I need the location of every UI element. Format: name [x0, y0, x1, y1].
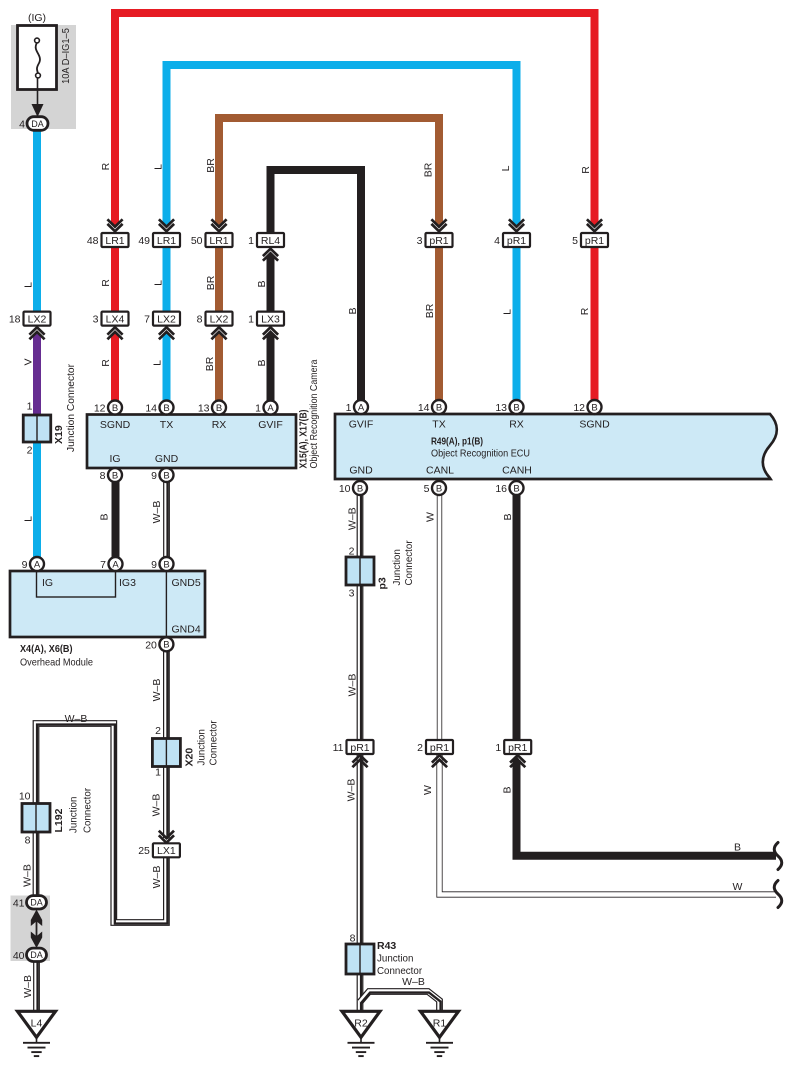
connector 1 pR1 — [495, 740, 531, 754]
svg-text:L: L — [23, 282, 35, 288]
DA splice background panel — [11, 896, 51, 962]
camera pin 8 B IG — [100, 468, 122, 482]
connector 25 LX1 — [138, 843, 180, 857]
svg-text:LX3: LX3 — [261, 314, 280, 326]
svg-text:R: R — [579, 307, 591, 315]
svg-text:LR1: LR1 — [105, 235, 124, 247]
svg-text:BR: BR — [204, 356, 216, 371]
svg-text:8: 8 — [100, 470, 106, 482]
connector pin 40 DA — [13, 948, 47, 962]
wire: blue L from fuse DA to LX2 — [33, 129, 41, 314]
svg-text:CANL: CANL — [426, 465, 454, 477]
svg-text:1: 1 — [248, 314, 254, 326]
ECU pin 1 A GVIF — [346, 400, 368, 414]
svg-text:10A D–IG1–5: 10A D–IG1–5 — [61, 28, 72, 84]
connector 2 pR1 — [417, 740, 453, 754]
svg-text:R: R — [100, 279, 112, 287]
svg-text:3: 3 — [349, 588, 355, 600]
svg-text:Overhead Module: Overhead Module — [20, 657, 93, 669]
svg-text:X19: X19 — [53, 425, 65, 444]
break symbol B wire — [774, 843, 782, 870]
svg-text:13: 13 — [495, 402, 507, 414]
wire: W-B pR1 to R43 — [357, 755, 364, 946]
svg-text:pR1: pR1 — [430, 742, 449, 754]
svg-text:B: B — [256, 359, 268, 366]
svg-text:B: B — [98, 513, 110, 520]
svg-text:W–B: W–B — [151, 501, 163, 524]
arrow into LR1 — [107, 219, 122, 231]
wire: red R segment LX4 to camera pin 12 — [111, 336, 119, 402]
wire: red R segment LR1 to LX4 — [111, 240, 119, 318]
svg-text:B: B — [734, 842, 741, 854]
svg-text:W–B: W–B — [22, 864, 34, 887]
svg-text:10: 10 — [339, 483, 351, 495]
svg-text:pR1: pR1 — [429, 235, 448, 247]
svg-text:GND5: GND5 — [172, 577, 201, 589]
svg-text:1: 1 — [495, 742, 501, 754]
svg-text:B: B — [502, 513, 514, 520]
svg-text:B: B — [163, 470, 169, 481]
svg-text:7: 7 — [100, 559, 106, 571]
svg-text:pR1: pR1 — [350, 742, 369, 754]
svg-text:DA: DA — [30, 898, 43, 908]
svg-text:B: B — [256, 280, 268, 287]
svg-text:BR: BR — [424, 303, 436, 318]
svg-text:3: 3 — [417, 235, 423, 247]
svg-text:1: 1 — [27, 401, 33, 413]
arrow into pR1 — [432, 755, 447, 767]
svg-text:L: L — [153, 280, 165, 286]
svg-text:SGND: SGND — [100, 419, 131, 431]
wire: blue L segment LR1 to LX2 — [163, 240, 171, 318]
svg-text:B: B — [163, 403, 169, 414]
svg-text:W: W — [425, 512, 437, 522]
connector pin 41 DA — [13, 896, 47, 910]
ground R1 — [421, 1011, 459, 1056]
svg-text:R: R — [580, 166, 592, 174]
ground R2 — [342, 1011, 380, 1056]
svg-text:SGND: SGND — [579, 419, 610, 431]
svg-text:11: 11 — [333, 742, 344, 754]
svg-text:p3: p3 — [377, 577, 389, 589]
svg-text:16: 16 — [495, 483, 507, 495]
svg-text:12: 12 — [94, 403, 106, 415]
wire: W-B R43 to ground R2 — [357, 973, 364, 1012]
svg-text:pR1: pR1 — [585, 235, 604, 247]
connector pin 4 DA — [19, 117, 48, 131]
svg-text:pR1: pR1 — [508, 742, 527, 754]
svg-text:Object Recognition Camera: Object Recognition Camera — [308, 359, 320, 468]
svg-text:B: B — [501, 786, 513, 793]
connector 8 LX2 — [197, 312, 233, 326]
ECU pin 16 B CANH — [495, 481, 523, 495]
wire: brown BR segment pR1 to ECU pin 14 — [435, 240, 443, 400]
svg-text:Object Recognition ECU: Object Recognition ECU — [431, 448, 530, 460]
svg-text:B: B — [513, 483, 519, 494]
svg-text:2: 2 — [349, 546, 355, 558]
svg-text:GVIF: GVIF — [349, 419, 374, 431]
arrow into LR1 — [211, 219, 226, 231]
junction connector X20 — [152, 739, 180, 767]
arrow into LX1 — [159, 831, 174, 843]
svg-text:GND: GND — [349, 465, 373, 477]
svg-text:W–B: W–B — [151, 866, 163, 889]
svg-text:8: 8 — [197, 314, 203, 326]
svg-text:R: R — [100, 359, 112, 367]
svg-text:W–B: W–B — [151, 794, 163, 817]
svg-text:9: 9 — [151, 470, 157, 482]
svg-text:(IG): (IG) — [28, 12, 46, 24]
svg-text:L: L — [502, 309, 514, 315]
connector 1 RL4 — [248, 233, 284, 247]
wire: brown BR segment LR1 to LX2 — [215, 240, 223, 318]
connector 7 LX2 — [144, 312, 180, 326]
svg-text:pR1: pR1 — [507, 235, 526, 247]
svg-text:B: B — [216, 403, 222, 414]
svg-text:LX4: LX4 — [106, 314, 125, 326]
svg-text:2: 2 — [27, 445, 33, 457]
svg-text:DA: DA — [30, 950, 43, 960]
wire: W ECU CANL pin 5 to pR1 — [437, 494, 442, 741]
junction connector L192 — [22, 804, 50, 833]
svg-text:IG: IG — [42, 577, 53, 589]
svg-text:A: A — [267, 403, 274, 414]
ECU pin 5 B CANL — [424, 481, 446, 495]
svg-text:W–B: W–B — [65, 713, 88, 725]
svg-text:R: R — [100, 162, 112, 170]
svg-text:B: B — [436, 402, 442, 413]
arrow into LX2 — [159, 327, 174, 339]
svg-text:5: 5 — [424, 483, 430, 495]
wire: black B segment camera pin 1 to LX3 — [267, 337, 275, 402]
camera pin 1 A GVIF — [255, 401, 277, 415]
svg-text:B: B — [112, 403, 118, 414]
ground L4 — [18, 1011, 56, 1056]
svg-text:48: 48 — [87, 235, 99, 247]
wire: B pR1 to right break — [517, 760, 777, 856]
fuse 10A D-IG1-5 — [18, 26, 57, 118]
svg-text:X20: X20 — [184, 748, 196, 767]
wire: black B segment LX3 to RL4 — [267, 258, 275, 314]
svg-text:Connector: Connector — [403, 540, 415, 586]
svg-text:Connector: Connector — [208, 720, 220, 766]
svg-text:DA: DA — [31, 119, 44, 129]
splice arrows between DA connectors — [31, 910, 42, 949]
connector 11 pR1 — [333, 740, 374, 754]
svg-text:CANH: CANH — [502, 465, 532, 477]
svg-text:RX: RX — [509, 419, 524, 431]
svg-text:12: 12 — [573, 402, 585, 414]
svg-text:GND: GND — [155, 453, 179, 465]
svg-text:18: 18 — [9, 314, 21, 326]
fuse background panel — [11, 25, 76, 129]
svg-text:LX2: LX2 — [210, 314, 229, 326]
svg-text:B: B — [357, 483, 363, 494]
svg-text:W–B: W–B — [345, 779, 357, 802]
svg-text:IG: IG — [109, 453, 120, 465]
wire: red R segment pR1 to ECU pin 12 — [591, 240, 599, 400]
junction connector X19 — [23, 415, 51, 442]
arrow into LX2 — [211, 327, 226, 339]
wire: purple V from LX2 to X19 — [33, 336, 41, 420]
svg-text:RL4: RL4 — [261, 235, 280, 247]
svg-text:41: 41 — [13, 898, 25, 910]
wire: brown BR segment LX2 to camera pin 13 — [215, 336, 223, 402]
arrow into RL4 — [263, 249, 278, 261]
svg-text:L: L — [153, 164, 165, 170]
svg-text:1: 1 — [255, 403, 261, 415]
svg-text:LR1: LR1 — [209, 235, 228, 247]
svg-text:TX: TX — [160, 419, 173, 431]
svg-text:W–B: W–B — [346, 507, 358, 530]
svg-text:BR: BR — [423, 162, 435, 177]
svg-text:1: 1 — [248, 235, 254, 247]
wire: W pR1 to right break — [440, 755, 777, 895]
svg-text:7: 7 — [144, 314, 150, 326]
svg-text:9: 9 — [22, 559, 28, 571]
svg-text:9: 9 — [151, 559, 157, 571]
svg-text:RX: RX — [212, 419, 227, 431]
svg-text:R49(A), p1(B): R49(A), p1(B) — [431, 436, 483, 448]
svg-text:IG3: IG3 — [119, 577, 136, 589]
arrow into pR1 — [352, 755, 367, 767]
svg-text:4: 4 — [494, 235, 500, 247]
wire: blue L segment LX2 to camera pin 14 — [163, 336, 171, 402]
wire: black B camera IG to module pin 7A — [112, 481, 120, 557]
module pin 20 B GND4 — [145, 637, 173, 651]
svg-text:LX1: LX1 — [157, 845, 176, 857]
svg-text:13: 13 — [198, 403, 210, 415]
wire: brown BR run — [219, 118, 439, 222]
svg-text:25: 25 — [138, 845, 150, 857]
ECU pin 13 B RX — [495, 400, 523, 414]
connector 50 LR1 — [191, 233, 233, 247]
svg-text:50: 50 — [191, 235, 203, 247]
svg-text:Junction: Junction — [391, 549, 403, 586]
component R49(A), p1(B) Object Recognition ECU — [335, 414, 777, 479]
ECU pin 12 B SGND — [573, 400, 601, 414]
svg-text:40: 40 — [13, 950, 25, 962]
wire: blue L segment pR1 to ECU pin 13 — [513, 240, 521, 400]
connector 48 LR1 — [87, 233, 129, 247]
svg-text:BR: BR — [205, 158, 217, 173]
wire: blue L run — [167, 65, 517, 222]
svg-text:B: B — [163, 640, 169, 651]
svg-text:BR: BR — [205, 275, 217, 290]
svg-text:2: 2 — [417, 742, 423, 754]
svg-text:GND4: GND4 — [172, 624, 201, 636]
svg-text:4: 4 — [19, 119, 25, 131]
wire: B ECU CANH pin 16 to pR1 — [513, 494, 521, 741]
svg-text:W: W — [422, 785, 434, 795]
svg-text:R43: R43 — [377, 940, 396, 952]
svg-text:L: L — [500, 165, 512, 171]
svg-text:TX: TX — [432, 419, 445, 431]
connector 49 LR1 — [138, 233, 180, 247]
svg-text:B: B — [591, 402, 597, 413]
arrow into LX2 — [29, 327, 44, 339]
arrow into pR1 — [431, 219, 446, 231]
svg-text:Junction: Junction — [377, 953, 414, 965]
wire: black B GVIF run RL4 to ECU pin 1 — [271, 170, 362, 400]
arrow into pR1 — [587, 219, 602, 231]
arrow into LX4 — [107, 327, 122, 339]
svg-text:1: 1 — [346, 402, 352, 414]
svg-text:A: A — [358, 402, 365, 413]
svg-text:20: 20 — [145, 639, 157, 651]
svg-text:X4(A), X6(B): X4(A), X6(B) — [20, 643, 73, 655]
wire: W-B DA40 to ground L4 — [33, 961, 40, 1012]
component X15(A), X17(B) Object Recognition Camera — [87, 415, 296, 469]
svg-text:2: 2 — [155, 725, 161, 737]
break symbol W wire — [774, 881, 782, 908]
svg-text:LR1: LR1 — [157, 235, 176, 247]
svg-text:W–B: W–B — [151, 679, 163, 702]
svg-text:8: 8 — [25, 835, 31, 847]
wire: W-B module pin 20 down through X20 to LX1 — [163, 650, 170, 838]
arrow into pR1 — [509, 219, 524, 231]
connector 3 LX4 — [93, 312, 129, 326]
svg-text:LX2: LX2 — [28, 314, 47, 326]
svg-text:V: V — [23, 358, 35, 365]
svg-text:B: B — [163, 559, 169, 570]
connector 3 pR1 — [417, 233, 453, 247]
camera pin 12 B SGND — [94, 401, 122, 415]
svg-text:W: W — [733, 881, 743, 893]
svg-text:Connector: Connector — [82, 787, 94, 833]
svg-text:A: A — [112, 559, 119, 570]
module pin 9 A IG — [22, 557, 44, 571]
ECU pin 14 B TX — [418, 400, 446, 414]
wire: W-B branch R43 to ground R1 — [360, 992, 440, 1013]
module pin 9 B GND5 — [151, 557, 173, 571]
svg-text:LX2: LX2 — [157, 314, 176, 326]
wire: red R run (fuse circuit SGND) — [115, 13, 595, 222]
connector 5 pR1 — [572, 233, 608, 247]
svg-text:W–B: W–B — [22, 975, 34, 998]
wire: W-B camera GND to module pin 9B — [163, 481, 170, 558]
wire: W-B ECU GND pin 10 through p3 to pR1 — [357, 494, 364, 741]
ECU pin 10 B GND — [339, 481, 367, 495]
connector 1 LX3 — [248, 312, 284, 326]
svg-text:R1: R1 — [433, 1017, 447, 1029]
arrow into pR1 — [510, 755, 525, 767]
wire: W-B LX1 loop to L192 and DA41 — [36, 724, 166, 923]
svg-text:Junction: Junction — [196, 729, 208, 766]
svg-text:A: A — [34, 559, 41, 570]
svg-text:14: 14 — [145, 403, 157, 415]
svg-text:49: 49 — [138, 235, 150, 247]
svg-text:5: 5 — [572, 235, 578, 247]
svg-text:W–B: W–B — [346, 674, 358, 697]
svg-text:B: B — [347, 307, 359, 314]
svg-text:L: L — [152, 360, 164, 366]
svg-text:B: B — [436, 483, 442, 494]
svg-text:B: B — [112, 470, 118, 481]
module pin 7 A IG3 — [100, 557, 122, 571]
camera pin 13 B RX — [198, 401, 226, 415]
svg-text:GVIF: GVIF — [258, 419, 283, 431]
svg-text:R2: R2 — [354, 1017, 368, 1029]
camera pin 9 B GND — [151, 468, 173, 482]
svg-text:B: B — [513, 402, 519, 413]
camera pin 14 B TX — [145, 401, 173, 415]
svg-text:1: 1 — [155, 767, 161, 779]
svg-text:W–B: W–B — [402, 976, 425, 988]
arrow into LR1 — [159, 219, 174, 231]
svg-text:Junction: Junction — [68, 796, 80, 833]
junction connector R43 — [346, 944, 374, 974]
svg-text:Junction Connector: Junction Connector — [65, 364, 77, 452]
component X4(A), X6(B) Overhead Module — [10, 571, 205, 637]
arrow into LX3 — [263, 327, 278, 339]
svg-text:14: 14 — [418, 402, 430, 414]
svg-text:L192: L192 — [53, 808, 65, 832]
svg-text:10: 10 — [19, 791, 31, 803]
svg-text:L4: L4 — [31, 1017, 43, 1029]
wire: blue L from X19 to overhead module pin 9A — [33, 441, 41, 557]
svg-text:L: L — [23, 516, 35, 522]
svg-text:3: 3 — [93, 314, 99, 326]
connector 4 pR1 — [494, 233, 530, 247]
junction connector p3 — [346, 557, 374, 585]
connector 18 LX2 — [9, 312, 51, 326]
